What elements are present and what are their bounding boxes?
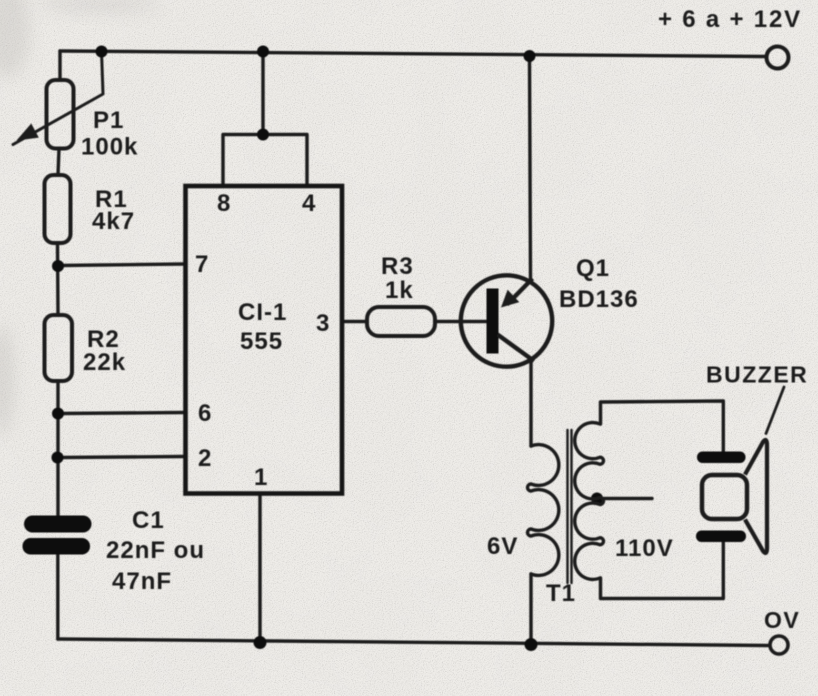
svg-text:C1: C1 — [132, 507, 165, 534]
svg-text:4: 4 — [302, 190, 316, 217]
svg-text:4k7: 4k7 — [92, 208, 135, 235]
svg-text:22k: 22k — [83, 349, 126, 376]
svg-text:1k: 1k — [385, 277, 414, 304]
svg-text:100k: 100k — [81, 134, 138, 161]
svg-text:8: 8 — [217, 190, 231, 217]
svg-text:+ 6 a + 12V: + 6 a + 12V — [658, 6, 802, 33]
svg-text:BD136: BD136 — [559, 286, 639, 313]
svg-text:T1: T1 — [546, 580, 576, 607]
svg-text:110V: 110V — [615, 535, 674, 562]
svg-text:CI-1: CI-1 — [238, 299, 287, 326]
svg-text:6: 6 — [198, 400, 212, 427]
svg-text:Q1: Q1 — [576, 255, 610, 282]
svg-text:22nF ou: 22nF ou — [106, 537, 205, 564]
svg-text:6V: 6V — [487, 533, 518, 560]
svg-text:555: 555 — [240, 328, 283, 355]
svg-text:P1: P1 — [93, 107, 124, 134]
svg-text:2: 2 — [198, 445, 212, 472]
svg-text:BUZZER: BUZZER — [706, 362, 808, 388]
svg-text:47nF: 47nF — [112, 568, 172, 595]
svg-text:7: 7 — [195, 251, 209, 278]
svg-text:R3: R3 — [381, 253, 414, 280]
svg-text:1: 1 — [254, 464, 268, 491]
svg-text:OV: OV — [764, 607, 800, 633]
svg-text:3: 3 — [316, 310, 330, 337]
